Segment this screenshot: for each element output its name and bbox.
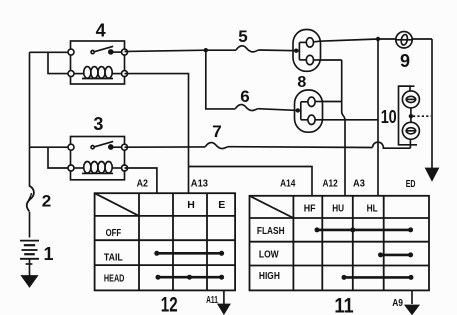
svg-text:10: 10 bbox=[381, 107, 397, 127]
junction node lamp9 bbox=[376, 37, 380, 41]
wire rail to relay3 top bbox=[30, 146, 72, 148]
wire lower bulb low filament to A3 net bbox=[322, 119, 378, 121]
wire rail to relay4 top bbox=[30, 51, 72, 53]
relay 3 bbox=[68, 137, 128, 180]
wire right rail down bbox=[431, 39, 433, 169]
relay 4 bbox=[68, 41, 128, 84]
table 12 TAIL connector bbox=[154, 251, 224, 256]
svg-text:12: 12 bbox=[161, 293, 178, 315]
svg-text:FLASH: FLASH bbox=[257, 225, 285, 237]
svg-text:2: 2 bbox=[42, 192, 51, 211]
switch table 12 bbox=[95, 193, 236, 290]
wire A3 net vertical bbox=[377, 39, 379, 196]
fuse 5 bbox=[236, 46, 259, 52]
wire hop over A3 net bbox=[373, 142, 384, 148]
wire fuse6 to headlamp low bbox=[258, 109, 298, 111]
svg-text:E: E bbox=[218, 199, 225, 211]
svg-text:11: 11 bbox=[334, 295, 354, 315]
ground arrow A11 bbox=[223, 290, 225, 304]
switch table 11 bbox=[250, 196, 430, 291]
svg-text:6: 6 bbox=[240, 87, 249, 106]
wire left rail vertical bbox=[29, 52, 31, 186]
table 11 LOW connector bbox=[378, 252, 413, 257]
table 12 HEAD connector bbox=[156, 275, 225, 280]
svg-text:4: 4 bbox=[96, 20, 106, 40]
svg-text:HU: HU bbox=[332, 203, 344, 215]
ground arrow battery bbox=[22, 276, 37, 287]
wire branch to relay4 coil bbox=[48, 52, 71, 73]
svg-text:ED: ED bbox=[406, 178, 416, 190]
svg-text:LOW: LOW bbox=[259, 249, 279, 261]
wire relay3 switch to fuse7 bbox=[125, 146, 206, 148]
svg-text:TAIL: TAIL bbox=[104, 251, 123, 263]
svg-text:A12: A12 bbox=[323, 178, 338, 190]
wire hop to pilot lamp bottom bbox=[383, 147, 411, 149]
wire fuse7 to hop bbox=[228, 146, 373, 149]
table 11 HIGH connector bbox=[342, 275, 414, 280]
svg-text:7: 7 bbox=[212, 122, 221, 141]
svg-text:HF: HF bbox=[304, 203, 316, 215]
svg-text:A2: A2 bbox=[137, 177, 149, 189]
junction node top bbox=[204, 48, 208, 52]
ground arrow A9 bbox=[411, 290, 413, 304]
svg-text:A3: A3 bbox=[353, 178, 365, 190]
svg-text:OFF: OFF bbox=[106, 227, 122, 239]
svg-text:9: 9 bbox=[400, 51, 410, 71]
wire relay3 coil to A2 bbox=[125, 168, 157, 193]
headlamp bulb 8 upper bbox=[293, 30, 321, 72]
wire branch to relay3 coil bbox=[48, 147, 71, 168]
wire high filament to right junction bbox=[320, 39, 378, 41]
headlamp bulb 8 lower bbox=[295, 90, 323, 132]
wire fuse5 to headlamp bbox=[259, 49, 296, 52]
ground arrow right rail bbox=[426, 169, 438, 181]
fuse 2 bbox=[27, 186, 34, 212]
svg-text:3: 3 bbox=[93, 114, 103, 134]
svg-text:HEAD: HEAD bbox=[104, 272, 125, 284]
svg-text:HIGH: HIGH bbox=[259, 270, 280, 282]
svg-text:5: 5 bbox=[238, 27, 247, 46]
svg-text:HL: HL bbox=[367, 203, 379, 215]
wire lower bulb high filament joins A12 net bbox=[322, 101, 342, 103]
pilot lamp 10 assembly bbox=[399, 86, 432, 148]
svg-text:8: 8 bbox=[297, 74, 306, 91]
wire low filament down (A12 net) bbox=[320, 60, 345, 196]
svg-text:A14: A14 bbox=[280, 178, 295, 190]
fuse 7 bbox=[205, 143, 228, 149]
svg-text:A9: A9 bbox=[392, 297, 403, 309]
svg-text:H: H bbox=[187, 199, 195, 211]
wire relay4 switch to fuse5 bbox=[125, 50, 237, 51]
wire left rail lower segment bbox=[29, 212, 31, 238]
fuse 6 bbox=[235, 105, 258, 111]
label 10 bbox=[381, 107, 398, 127]
table 11 FLASH connector bbox=[315, 227, 414, 232]
svg-text:A11: A11 bbox=[206, 294, 218, 306]
battery 1 bbox=[20, 241, 39, 277]
svg-text:1: 1 bbox=[44, 244, 54, 264]
wire relay4 coil to A13 bbox=[125, 74, 189, 194]
wire junction to lamp9 to right corner bbox=[378, 38, 432, 40]
lamp 9 bbox=[396, 32, 412, 48]
svg-text:A13: A13 bbox=[191, 177, 208, 189]
wire branch A13 to A14 column bbox=[189, 167, 313, 196]
wire junction down to fuse6 bbox=[206, 50, 235, 109]
